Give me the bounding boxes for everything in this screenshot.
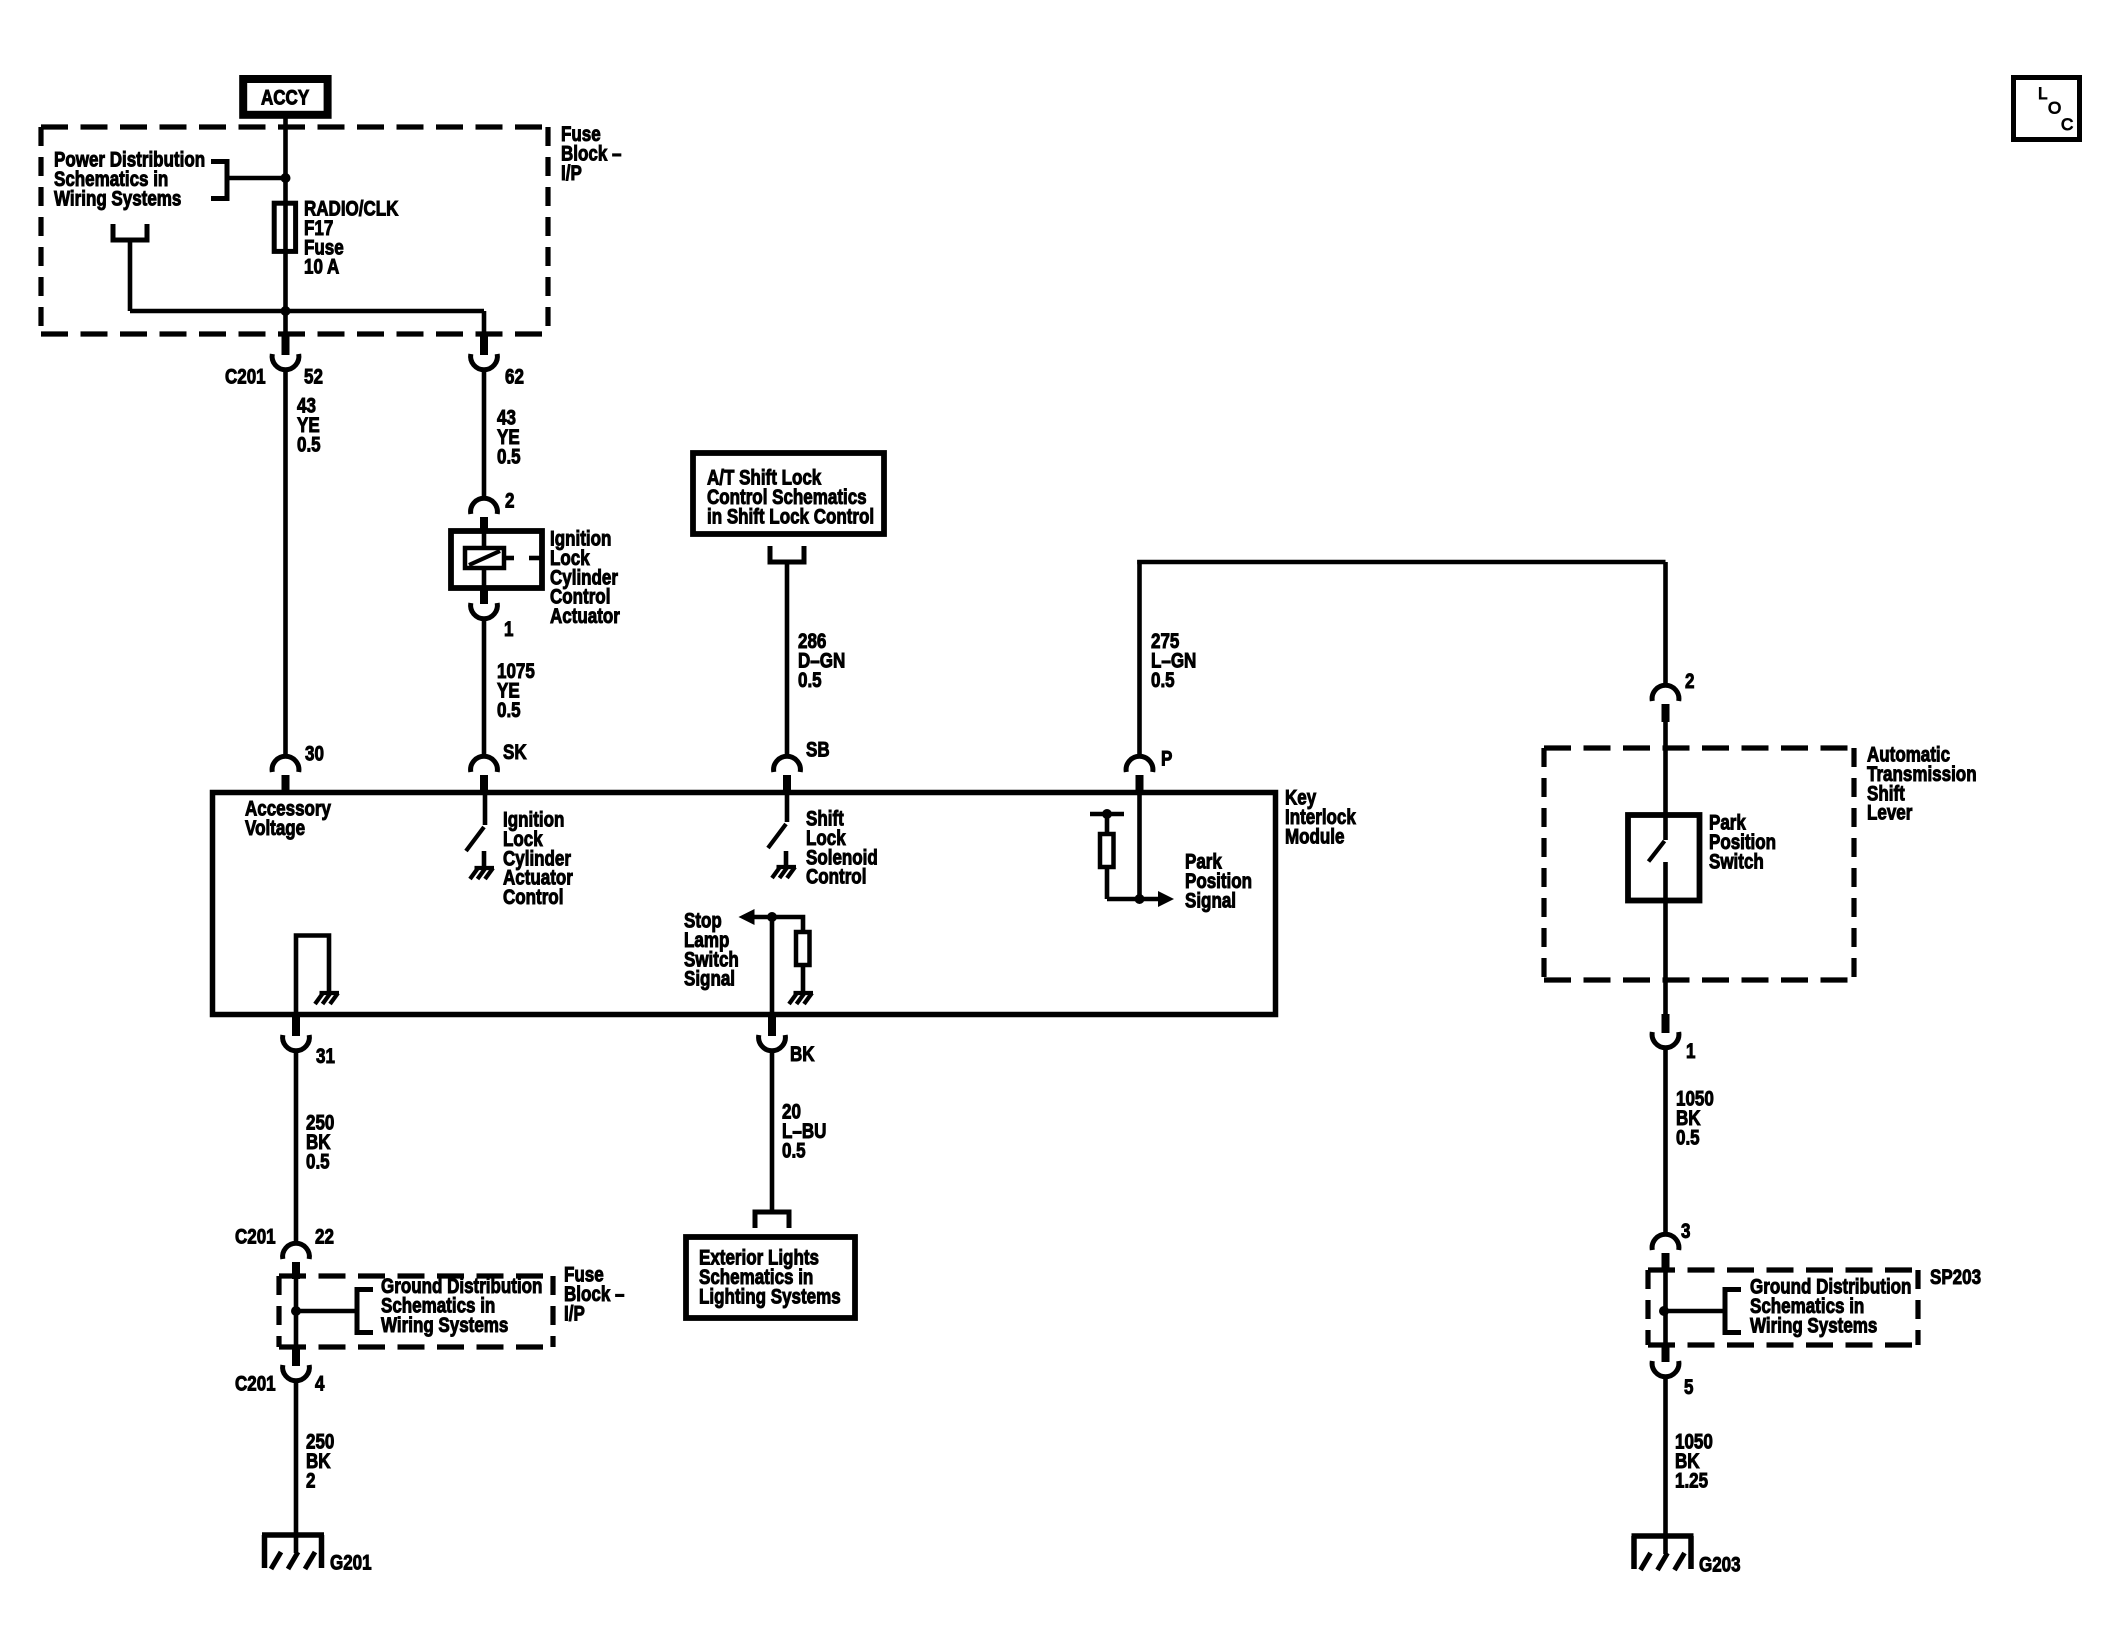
svg-text:Wiring Systems: Wiring Systems — [54, 188, 181, 211]
svg-text:0.5: 0.5 — [782, 1140, 806, 1163]
svg-text:62: 62 — [505, 366, 524, 389]
svg-text:0.5: 0.5 — [297, 434, 321, 457]
svg-text:C201: C201 — [225, 366, 266, 389]
svg-text:2: 2 — [306, 1470, 315, 1493]
svg-text:O: O — [2048, 99, 2061, 118]
svg-text:BK: BK — [790, 1043, 815, 1066]
svg-text:C: C — [2061, 115, 2073, 134]
svg-text:Wiring Systems: Wiring Systems — [381, 1314, 508, 1337]
svg-text:G201: G201 — [330, 1552, 372, 1575]
svg-text:Module: Module — [1285, 826, 1344, 849]
svg-text:G203: G203 — [1699, 1554, 1741, 1577]
svg-text:C201: C201 — [235, 1226, 276, 1249]
svg-text:10 A: 10 A — [304, 256, 339, 279]
svg-text:0.5: 0.5 — [1151, 669, 1175, 692]
svg-text:Voltage: Voltage — [245, 817, 305, 840]
svg-text:0.5: 0.5 — [798, 669, 822, 692]
svg-text:ACCY: ACCY — [261, 87, 309, 110]
svg-text:Lighting Systems: Lighting Systems — [699, 1286, 841, 1309]
svg-text:Signal: Signal — [684, 968, 735, 991]
svg-text:22: 22 — [315, 1226, 334, 1249]
svg-text:SK: SK — [503, 741, 527, 764]
svg-text:30: 30 — [305, 743, 324, 766]
svg-text:I/P: I/P — [564, 1303, 585, 1326]
svg-text:1.25: 1.25 — [1675, 1470, 1708, 1493]
svg-text:1: 1 — [1686, 1040, 1696, 1063]
svg-text:2: 2 — [1685, 670, 1694, 693]
svg-text:Signal: Signal — [1185, 890, 1236, 913]
svg-text:Control: Control — [503, 887, 563, 910]
svg-text:0.5: 0.5 — [306, 1151, 330, 1174]
svg-text:SB: SB — [806, 739, 830, 762]
svg-text:Lever: Lever — [1867, 802, 1913, 825]
svg-text:Wiring Systems: Wiring Systems — [1750, 1315, 1877, 1338]
svg-text:0.5: 0.5 — [497, 699, 521, 722]
svg-text:4: 4 — [315, 1373, 325, 1396]
svg-text:I/P: I/P — [561, 162, 582, 185]
svg-text:3: 3 — [1681, 1220, 1690, 1243]
svg-text:L: L — [2038, 84, 2047, 103]
svg-text:0.5: 0.5 — [497, 446, 521, 469]
svg-text:5: 5 — [1684, 1376, 1694, 1399]
svg-text:1: 1 — [504, 618, 514, 641]
svg-text:P: P — [1161, 748, 1173, 771]
svg-text:0.5: 0.5 — [1676, 1127, 1700, 1150]
svg-text:31: 31 — [316, 1045, 335, 1068]
svg-text:C201: C201 — [235, 1373, 276, 1396]
svg-text:Actuator: Actuator — [550, 606, 620, 629]
svg-text:SP203: SP203 — [1930, 1266, 1981, 1289]
svg-text:Control: Control — [806, 866, 866, 889]
svg-text:2: 2 — [505, 490, 514, 513]
svg-text:in Shift Lock Control: in Shift Lock Control — [707, 506, 874, 529]
svg-text:Switch: Switch — [1709, 851, 1764, 874]
svg-text:52: 52 — [304, 366, 323, 389]
